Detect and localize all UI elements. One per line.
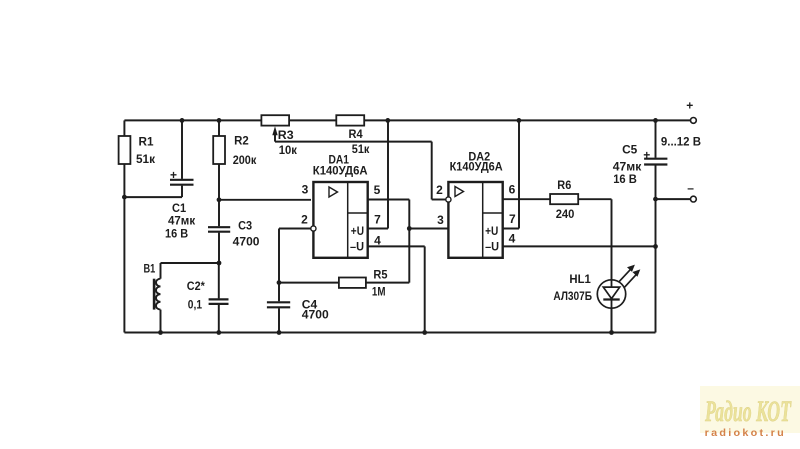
- svg-text:0,1: 0,1: [188, 298, 202, 312]
- svg-text:1М: 1М: [372, 285, 386, 299]
- svg-text:R1: R1: [139, 135, 154, 149]
- svg-text:R3: R3: [278, 128, 294, 142]
- svg-text:C3: C3: [238, 218, 252, 232]
- svg-text:2: 2: [436, 183, 443, 197]
- svg-text:7: 7: [374, 212, 381, 226]
- svg-text:200к: 200к: [233, 153, 257, 167]
- svg-text:Радио КОТ: Радио КОТ: [704, 395, 792, 428]
- svg-text:3: 3: [302, 182, 309, 196]
- svg-text:B1: B1: [144, 261, 156, 275]
- svg-text:АЛ307Б: АЛ307Б: [553, 289, 592, 303]
- svg-text:+U: +U: [351, 224, 364, 238]
- svg-text:R2: R2: [234, 133, 249, 147]
- svg-text:6: 6: [509, 182, 516, 196]
- svg-text:2: 2: [301, 212, 308, 226]
- svg-text:К140УД6А: К140УД6А: [450, 160, 503, 174]
- svg-text:9...12 В: 9...12 В: [661, 134, 701, 148]
- svg-text:4: 4: [509, 231, 516, 245]
- svg-text:+: +: [643, 148, 650, 162]
- svg-text:240: 240: [556, 207, 575, 221]
- svg-text:47мк: 47мк: [168, 214, 196, 228]
- svg-text:HL1: HL1: [569, 272, 591, 286]
- svg-text:+: +: [170, 168, 177, 182]
- svg-text:4700: 4700: [233, 234, 260, 248]
- svg-text:–: –: [687, 181, 694, 195]
- svg-text:R4: R4: [349, 127, 363, 141]
- svg-text:+U: +U: [485, 224, 498, 238]
- svg-text:R5: R5: [373, 267, 387, 281]
- svg-text:–U: –U: [485, 239, 499, 253]
- svg-text:3: 3: [437, 213, 444, 227]
- svg-text:7: 7: [509, 212, 516, 226]
- svg-text:–U: –U: [350, 239, 364, 253]
- svg-text:51к: 51к: [352, 142, 370, 156]
- svg-text:4: 4: [374, 233, 381, 247]
- svg-text:51к: 51к: [136, 152, 156, 166]
- svg-text:4700: 4700: [302, 308, 329, 322]
- svg-text:C5: C5: [622, 142, 638, 156]
- svg-text:10к: 10к: [279, 143, 298, 157]
- svg-text:16 В: 16 В: [165, 226, 188, 240]
- svg-text:16 В: 16 В: [613, 172, 637, 186]
- svg-text:К140УД6А: К140УД6А: [313, 163, 368, 177]
- svg-text:C2*: C2*: [187, 279, 205, 293]
- svg-text:radiokot.ru: radiokot.ru: [705, 427, 786, 439]
- svg-text:+: +: [686, 99, 693, 113]
- svg-text:5: 5: [374, 183, 381, 197]
- svg-text:R6: R6: [557, 178, 571, 192]
